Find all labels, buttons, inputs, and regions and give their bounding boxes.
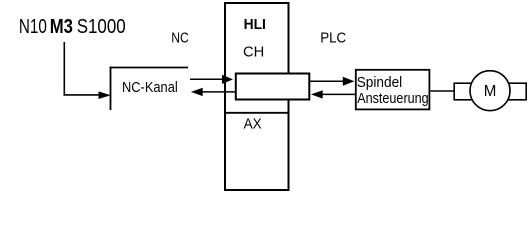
svg-text:NC-Kanal: NC-Kanal	[122, 79, 178, 96]
svg-text:PLC: PLC	[320, 29, 346, 46]
svg-text:NC: NC	[171, 29, 189, 46]
svg-text:Ansteuerung: Ansteuerung	[357, 90, 429, 107]
svg-text:M: M	[484, 83, 497, 100]
svg-text:CH: CH	[243, 44, 264, 61]
svg-text:HLI: HLI	[244, 16, 266, 33]
svg-text:N10: N10	[19, 16, 47, 38]
svg-text:AX: AX	[244, 115, 262, 132]
svg-text:M3: M3	[50, 16, 73, 38]
svg-text:S1000: S1000	[77, 16, 126, 38]
svg-text:Spindel: Spindel	[357, 74, 403, 91]
